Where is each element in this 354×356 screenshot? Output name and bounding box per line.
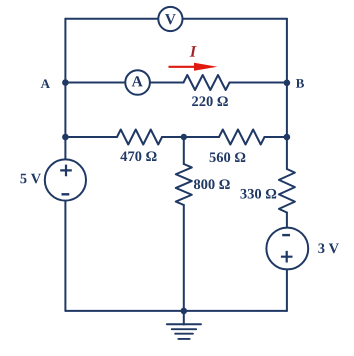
wire right vertical lower: [286, 213, 288, 311]
wire middle branch left: [65, 136, 117, 138]
value label 560 ohm: [210, 152, 246, 162]
wire 470 ohm to center node: [162, 136, 219, 138]
ground: [167, 324, 201, 339]
resistor 800 ohm: [176, 164, 192, 205]
junction dot bottom: [181, 308, 188, 315]
node label A: [41, 79, 50, 88]
wire node A to ammeter: [65, 82, 183, 84]
voltmeter V: [158, 7, 182, 31]
junction dot center middle: [181, 134, 187, 140]
junction dot node A: [62, 79, 69, 86]
value label 220 ohm: [192, 96, 228, 106]
current arrow: [169, 63, 218, 71]
node label B: [296, 79, 304, 88]
resistor 220 ohm: [184, 75, 230, 90]
voltage source 3 V: [266, 228, 308, 270]
wire 220 ohm to node B: [230, 82, 287, 84]
wire 800 ohm down to bottom rail: [183, 205, 185, 311]
wire bottom rail: [65, 310, 287, 312]
value label 470 ohm: [120, 151, 156, 161]
voltage source 5 V: [45, 159, 86, 200]
ammeter A: [125, 70, 150, 95]
junction dot node B: [284, 80, 291, 87]
wire 560 ohm to right vertical: [265, 136, 287, 138]
value label 5 V: [20, 174, 41, 184]
wire right vertical upper: [286, 19, 288, 169]
junction dot right middle: [284, 134, 291, 141]
current label I: [190, 46, 197, 57]
value label 330 ohm: [241, 189, 277, 199]
wire left vertical: [64, 19, 66, 311]
wire top rail: [65, 18, 287, 20]
resistor 470 ohm: [117, 130, 162, 145]
resistor 560 ohm: [219, 130, 265, 145]
resistor 330 ohm: [279, 169, 295, 213]
wire center node down: [183, 137, 185, 164]
junction dot left middle: [62, 134, 69, 141]
value label 3 V: [318, 243, 339, 253]
wire ground stub: [183, 311, 185, 325]
value label 800 ohm: [194, 179, 230, 189]
